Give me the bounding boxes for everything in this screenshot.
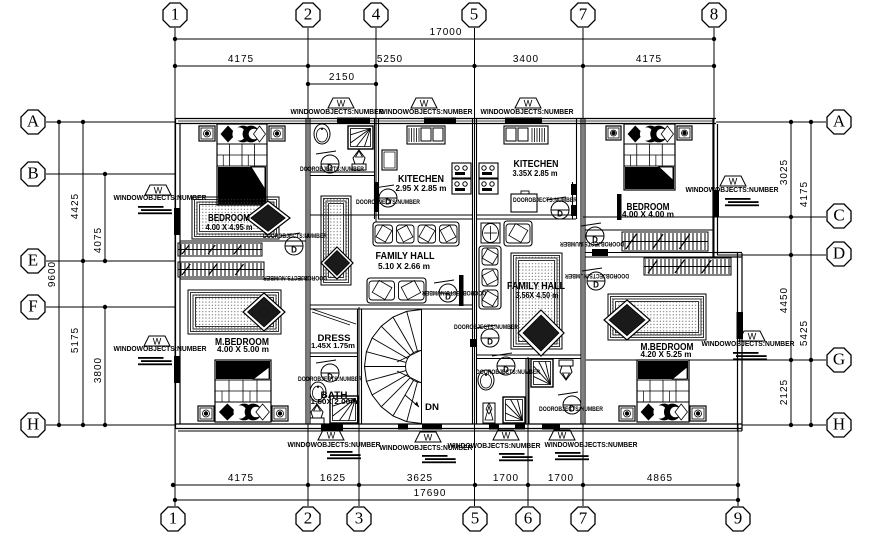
wall kitchen right x575	[573, 118, 577, 219]
dim 5175	[70, 327, 81, 353]
wall right bedroom wardrobe y230	[585, 229, 713, 231]
diamond on left mbedroom carpet	[243, 293, 285, 331]
diamond on right hall carpet	[518, 310, 564, 356]
svg-text:W: W	[337, 99, 346, 109]
wall right halls/bath y357	[477, 355, 581, 359]
svg-text:WINDOWOBJECTS:NUMBER: WINDOWOBJECTS:NUMBER	[114, 195, 207, 202]
svg-text:F: F	[28, 296, 37, 315]
door D left washroom	[316, 151, 339, 173]
svg-text:G: G	[833, 349, 845, 368]
grid line 7 vertical	[582, 28, 584, 506]
dim 2125	[779, 379, 790, 405]
svg-text:D: D	[833, 243, 845, 262]
svg-text:4425: 4425	[70, 193, 81, 219]
svg-text:W: W	[524, 99, 533, 109]
carpet right mbedroom	[608, 294, 706, 340]
window bar top wall 3	[505, 118, 542, 125]
dim line right outer	[809, 120, 813, 427]
svg-text:1: 1	[169, 508, 178, 527]
svg-text:WINDOWOBJECTS:NUMBER: WINDOWOBJECTS:NUMBER	[114, 346, 207, 353]
svg-text:WINDOWOBJECTS:NUMBER: WINDOWOBJECTS:NUMBER	[481, 109, 574, 116]
svg-text:5425: 5425	[799, 320, 810, 346]
dim 3800	[93, 357, 104, 383]
door leaf right bedroom	[617, 194, 622, 220]
dimension line 17690	[173, 488, 740, 502]
dim 4450	[779, 287, 790, 313]
svg-text:4175: 4175	[636, 54, 662, 65]
dim 4865	[647, 473, 673, 484]
wardrobe band L1	[178, 243, 262, 256]
outer wall right upper	[713, 118, 718, 258]
svg-text:DRESS: DRESS	[318, 333, 351, 343]
svg-text:7: 7	[579, 508, 588, 527]
svg-text:4175: 4175	[228, 54, 254, 65]
dim line 9600 vertical	[47, 120, 61, 427]
svg-text:3.35X 2.85 m: 3.35X 2.85 m	[513, 169, 558, 178]
svg-text:DOOROBJECTS:NUMBER: DOOROBJECTS:NUMBER	[300, 166, 364, 173]
bed bedroom right unit	[624, 124, 675, 190]
door leaf left kitchen	[375, 182, 379, 212]
kitchen counter sink left unit	[407, 126, 445, 144]
carpet bedroom left	[192, 197, 279, 239]
grid bubble 1 top	[163, 3, 187, 27]
svg-text:WINDOWOBJECTS:NUMBER: WINDOWOBJECTS:NUMBER	[545, 442, 638, 449]
door D right bath2	[558, 392, 581, 414]
window label bottom 3	[448, 430, 541, 461]
door D left kitchen	[374, 185, 397, 207]
window label bottom 2	[380, 432, 473, 463]
dim line left inner2 (4075/3800)	[103, 172, 107, 427]
toilet left bath	[310, 404, 324, 424]
grid line 9 vertical	[737, 424, 739, 506]
dim 1700 left	[493, 473, 519, 484]
svg-text:DOOROBJECTS:NUMBER: DOOROBJECTS:NUMBER	[298, 376, 362, 383]
window label right 2	[702, 331, 795, 360]
svg-text:3800: 3800	[93, 357, 104, 383]
wall right baths divider x527	[526, 359, 529, 424]
washbasin right bath1	[478, 370, 494, 390]
svg-text:4: 4	[372, 4, 381, 23]
svg-text:1700: 1700	[493, 473, 519, 484]
side table right mbed a	[619, 406, 635, 421]
svg-text:9: 9	[734, 508, 743, 527]
side table left mbed a	[198, 406, 214, 421]
grid bubble H right	[827, 413, 851, 437]
shower right bath2	[531, 359, 553, 387]
window label bottom 1	[288, 430, 381, 459]
svg-text:4075: 4075	[93, 227, 104, 253]
svg-text:H: H	[833, 414, 845, 433]
grid bubble 5 top	[462, 3, 486, 27]
door D right bedroom	[581, 223, 604, 245]
dim 1625	[320, 473, 346, 484]
window label right 1	[686, 176, 779, 206]
svg-text:W: W	[748, 332, 757, 342]
grid bubble D right	[827, 242, 851, 266]
wardrobe band L2	[178, 262, 264, 277]
door leaf right mbed	[592, 249, 608, 256]
dimension line bottom row	[171, 483, 740, 487]
wall stairs top y307 (F)	[310, 305, 472, 309]
svg-text:WINDOWOBJECTS:NUMBER: WINDOWOBJECTS:NUMBER	[448, 443, 541, 450]
grid bubble H left	[21, 413, 45, 437]
dim 4175 top-right	[636, 54, 662, 65]
svg-text:W: W	[729, 177, 738, 187]
svg-text:4175: 4175	[799, 181, 810, 207]
dim 5425	[799, 320, 810, 346]
door label left bedroom	[263, 233, 327, 240]
grid line 2 vertical	[307, 28, 309, 506]
wall right mbed north y254 (D)	[585, 253, 713, 258]
grid line 1 vertical	[174, 28, 176, 506]
grid bubble 6 bottom	[516, 507, 540, 531]
wall left washroom bottom y174	[310, 172, 375, 176]
svg-text:DOOROBJECTS:NUMBER: DOOROBJECTS:NUMBER	[560, 240, 624, 247]
label bedroom left	[206, 213, 253, 232]
toilet right bath2	[559, 360, 573, 380]
door leaf right hall	[470, 339, 477, 347]
dimension line 17000	[173, 27, 716, 41]
svg-text:DOOROBJECTS:NUMBER: DOOROBJECTS:NUMBER	[476, 369, 540, 376]
grid line E horizontal	[46, 260, 175, 262]
grid bubble C right	[827, 204, 851, 228]
door D left hall	[434, 280, 457, 302]
grid bubble 2 bottom	[296, 507, 320, 531]
svg-text:5: 5	[471, 508, 480, 527]
dimension line 2150	[306, 72, 378, 86]
dim line left inner (4425/5175)	[81, 120, 85, 427]
svg-text:D: D	[593, 281, 599, 290]
svg-text:2150: 2150	[329, 72, 355, 83]
svg-text:DOOROBJECTS:NUMBER: DOOROBJECTS:NUMBER	[356, 199, 420, 206]
svg-text:1625: 1625	[320, 473, 346, 484]
wall left bedroom/wardrobe y242	[180, 240, 306, 242]
grid line 6 vertical	[527, 357, 529, 506]
grid bubble 3 bottom	[347, 507, 371, 531]
window bar right wall lower	[737, 312, 744, 339]
door label right bath1	[476, 369, 540, 376]
label kitchen left	[396, 174, 447, 193]
dimension line top row	[173, 64, 716, 68]
grid bubble B left	[21, 162, 45, 186]
svg-text:D: D	[487, 338, 493, 347]
grid bubble A left	[21, 110, 45, 134]
svg-text:8: 8	[710, 4, 719, 23]
svg-text:3.56X 4.50 m: 3.56X 4.50 m	[516, 291, 559, 300]
svg-text:DOOROBJECTS:NUMBER: DOOROBJECTS:NUMBER	[513, 197, 577, 204]
side table left of bed L1	[199, 126, 215, 141]
svg-text:5250: 5250	[377, 54, 403, 65]
wall left mbed north y280	[180, 278, 306, 280]
svg-text:A: A	[27, 111, 40, 130]
label mbedroom right	[641, 342, 694, 359]
grid bubble F left	[21, 295, 45, 319]
grid bubble 9 bottom	[726, 507, 750, 531]
window label top 1	[291, 98, 384, 116]
svg-text:4.00 X 4.95 m: 4.00 X 4.95 m	[206, 223, 253, 232]
svg-text:D: D	[291, 246, 297, 255]
grid line G horizontal	[586, 359, 826, 361]
washbasin left washroom	[314, 124, 330, 144]
spiral staircase	[365, 310, 422, 424]
door D right mbedroom	[582, 268, 605, 290]
window bar top wall 1	[337, 118, 370, 125]
grid bubble 1 bottom	[161, 507, 185, 531]
svg-text:WINDOWOBJECTS:NUMBER: WINDOWOBJECTS:NUMBER	[380, 109, 473, 116]
door niche right kitchen wall	[571, 184, 577, 216]
dim 1700 right	[548, 473, 574, 484]
svg-text:17000: 17000	[430, 27, 463, 38]
svg-text:6: 6	[524, 508, 533, 527]
svg-text:DOOROBJECTS:NUMBER: DOOROBJECTS:NUMBER	[565, 272, 629, 279]
door threshold bars bottom wall	[321, 424, 560, 431]
sofa row left family hall lower	[367, 278, 426, 303]
side table right of bed L1	[269, 126, 285, 141]
outer wall right lower	[738, 253, 743, 431]
carpet left mbedroom	[188, 290, 281, 334]
svg-text:2: 2	[304, 4, 313, 23]
DN label	[425, 402, 439, 413]
svg-text:DN: DN	[425, 402, 439, 413]
svg-text:7: 7	[579, 4, 588, 23]
svg-text:4.00 X 5.00 m: 4.00 X 5.00 m	[217, 345, 269, 354]
shower left washroom	[348, 126, 373, 149]
svg-text:3: 3	[355, 508, 364, 527]
svg-text:DOOROBJECTS:NUMBER: DOOROBJECTS:NUMBER	[539, 406, 603, 413]
svg-text:4865: 4865	[647, 473, 673, 484]
dim 4175 top-left	[228, 54, 254, 65]
grid line 8 vertical	[713, 28, 715, 258]
dim 4075	[93, 227, 104, 253]
dim 4175 right	[799, 181, 810, 207]
svg-text:DOOROBJECTS:NUMBER: DOOROBJECTS:NUMBER	[422, 289, 486, 296]
grid line H horizontal	[46, 424, 826, 426]
carpet right family hall	[511, 253, 562, 349]
svg-text:W: W	[327, 431, 336, 441]
outer wall bottom	[175, 424, 742, 431]
svg-text:9600: 9600	[47, 261, 58, 287]
grid line 4 vertical	[375, 28, 377, 222]
grid line D horizontal	[717, 254, 826, 256]
cooktop left kitchen	[452, 163, 471, 194]
svg-text:2.95 X 2.85 m: 2.95 X 2.85 m	[396, 184, 447, 193]
dim 3625	[407, 473, 433, 484]
svg-text:3625: 3625	[407, 473, 433, 484]
door label right kitchen	[513, 197, 577, 204]
side table right unit bed b	[677, 126, 692, 140]
wall kitchen left x376	[375, 118, 379, 219]
grid bubble 5 bottom	[463, 507, 487, 531]
grid bubble 8 top	[702, 3, 726, 27]
door D left bath	[316, 360, 339, 382]
grid bubble 7 bottom	[571, 507, 595, 531]
wardrobe band R1	[622, 232, 708, 251]
svg-text:4450: 4450	[779, 287, 790, 313]
bed left mbedroom	[215, 360, 271, 422]
svg-text:FAMILY HALL: FAMILY HALL	[376, 251, 435, 262]
svg-text:W: W	[153, 337, 162, 347]
door label right bedroom	[560, 240, 624, 247]
side table left mbed b	[272, 406, 288, 421]
round table right hall	[481, 223, 500, 243]
label family hall left	[376, 251, 435, 271]
door label left mbedroom	[263, 274, 327, 281]
door label right hall	[454, 324, 518, 331]
window label top 3	[481, 98, 574, 116]
party wall unit divider x475	[473, 118, 477, 424]
window label left 2	[114, 336, 207, 365]
carpet left corridor	[321, 196, 351, 285]
svg-text:17690: 17690	[414, 488, 447, 499]
svg-text:1.45X 1.75m: 1.45X 1.75m	[311, 343, 355, 350]
svg-text:4.20 X 5.25 m: 4.20 X 5.25 m	[641, 350, 692, 359]
wardrobe band R2	[644, 258, 731, 275]
grid bubble 7 top	[571, 3, 595, 27]
dim line right inner	[789, 120, 793, 427]
svg-text:DOOROBJECTS:NUMBER: DOOROBJECTS:NUMBER	[263, 233, 327, 240]
side table right unit bed a	[606, 126, 621, 140]
wall kitchens bottom y217	[310, 215, 576, 219]
door label right mbedroom	[565, 272, 629, 279]
svg-text:W: W	[154, 186, 163, 196]
svg-text:4175: 4175	[228, 473, 254, 484]
door D left bedroom	[280, 233, 303, 255]
door label left kitchen	[356, 199, 420, 206]
toilet left washroom	[352, 150, 366, 170]
grid line 3 vertical	[358, 307, 360, 506]
door label left washroom	[300, 166, 364, 173]
diamond on left bedroom carpet	[246, 201, 290, 235]
grid line C horizontal	[583, 216, 826, 218]
svg-text:WINDOWOBJECTS:NUMBER: WINDOWOBJECTS:NUMBER	[291, 109, 384, 116]
pedestal right bath1	[483, 403, 495, 423]
wall x308 left bedrooms divider	[306, 118, 310, 424]
svg-text:E: E	[28, 250, 38, 269]
label mbedroom left	[215, 337, 269, 354]
label bedroom right	[622, 202, 674, 219]
bed bedroom left unit	[217, 124, 267, 205]
door label dress/bath	[298, 376, 362, 383]
bed right mbedroom	[637, 360, 689, 422]
svg-text:4.00 X 4.00 m: 4.00 X 4.00 m	[622, 210, 674, 219]
grid bubble G right	[827, 348, 851, 372]
window bar top wall 2	[424, 118, 456, 125]
svg-text:DOOROBJECTS:NUMBER: DOOROBJECTS:NUMBER	[263, 274, 327, 281]
svg-text:C: C	[833, 205, 844, 224]
outer wall top	[175, 119, 716, 124]
outer wall jog at D	[713, 253, 742, 258]
label dress	[311, 333, 355, 350]
svg-text:2125: 2125	[779, 379, 790, 405]
diamond on right mbedroom carpet	[604, 300, 650, 340]
label family hall right	[507, 281, 565, 300]
svg-text:3025: 3025	[779, 159, 790, 185]
grid line F horizontal	[46, 306, 175, 308]
washbasin left bath	[310, 382, 326, 402]
diamond on left corridor carpet	[321, 247, 353, 279]
grid line 5 vertical	[474, 28, 476, 506]
grid bubble 4 top	[364, 3, 388, 27]
window label bottom 4	[545, 430, 638, 460]
svg-text:5175: 5175	[70, 327, 81, 353]
svg-text:W: W	[420, 99, 429, 109]
door D right hall	[476, 325, 499, 347]
dim 3400	[513, 54, 539, 65]
svg-text:1700: 1700	[548, 473, 574, 484]
sofa row left family hall	[373, 222, 459, 246]
shower right bath1	[503, 397, 525, 423]
parapet stubs above top wall	[308, 100, 583, 118]
wall dress right x359	[358, 309, 362, 424]
dim 4425	[70, 193, 81, 219]
window label left 1	[114, 185, 207, 214]
sofa single right hall	[504, 221, 532, 246]
grid line B horizontal	[46, 173, 175, 175]
shower left bath	[330, 396, 358, 423]
svg-text:W: W	[558, 431, 567, 441]
wall dress/bath divider y355	[310, 353, 358, 357]
dress mirror diagonal	[312, 309, 356, 325]
svg-text:B: B	[27, 163, 38, 182]
dim 4175 bottom	[228, 473, 254, 484]
svg-text:H: H	[27, 414, 39, 433]
grid bubble E left	[21, 249, 45, 273]
sofa column right hall	[479, 246, 501, 309]
svg-text:W: W	[424, 433, 433, 443]
svg-text:1: 1	[171, 4, 180, 23]
cooktop right kitchen	[479, 163, 498, 194]
svg-text:5.10 X 2.66 m: 5.10 X 2.66 m	[378, 262, 430, 271]
svg-text:WINDOWOBJECTS:NUMBER: WINDOWOBJECTS:NUMBER	[702, 341, 795, 348]
grid line A horizontal	[46, 121, 826, 123]
kitchen counter sink right unit	[504, 126, 548, 144]
washing machine right kitchen	[511, 191, 537, 212]
label kitchen right	[513, 159, 559, 178]
door label left hall	[422, 289, 486, 296]
svg-text:W: W	[502, 431, 511, 441]
side table right mbed b	[690, 406, 706, 421]
dim 3025	[779, 159, 790, 185]
window bar left wall lower	[174, 356, 181, 383]
door label right bath2	[539, 406, 603, 413]
grid bubble A right	[827, 110, 851, 134]
svg-text:5: 5	[470, 4, 479, 23]
door D right kitchen	[546, 197, 569, 219]
svg-text:2: 2	[304, 508, 313, 527]
outer wall left	[176, 118, 181, 428]
door D right bath1	[492, 353, 515, 375]
svg-text:A: A	[833, 111, 846, 130]
svg-text:3400: 3400	[513, 54, 539, 65]
dim 5250	[377, 54, 403, 65]
svg-text:WINDOWOBJECTS:NUMBER: WINDOWOBJECTS:NUMBER	[686, 187, 779, 194]
svg-text:1.50X 2.00m: 1.50X 2.00m	[311, 399, 358, 406]
svg-text:WINDOWOBJECTS:NUMBER: WINDOWOBJECTS:NUMBER	[288, 442, 381, 449]
label bath	[311, 390, 358, 406]
svg-text:D: D	[557, 210, 563, 219]
door leaf left hall	[459, 275, 464, 306]
svg-text:DOOROBJECTS:NUMBER: DOOROBJECTS:NUMBER	[454, 324, 518, 331]
window bar right wall upper	[713, 190, 720, 217]
window bar left wall upper	[174, 208, 181, 235]
grid bubble 2 top	[296, 3, 320, 27]
fridge left kitchen	[382, 150, 397, 170]
wall x583 right bedrooms divider	[581, 118, 585, 424]
window label top 2	[380, 98, 473, 116]
